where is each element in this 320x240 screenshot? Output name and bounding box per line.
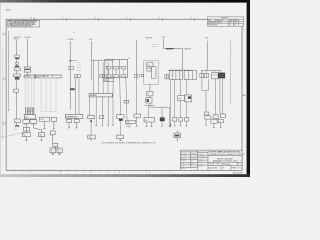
bus join [144,104,154,106]
notes box top-left [8,20,40,27]
contact set 1 [106,75,111,78]
wire stub [127,127,129,128]
junction box JB602 [51,117,56,121]
svg-text:DESIGN: DESIGN [181,158,186,160]
wire [119,121,121,135]
wire [169,80,171,127]
wire W607 [90,41,92,60]
wire [186,80,188,95]
wire [126,77,127,120]
wire [53,121,55,129]
wire W609 [163,39,165,49]
node label EMER 28V BUS [14,37,21,41]
wire split [53,147,59,148]
wire stub [205,119,207,125]
connector splice dark [70,88,75,90]
svg-text:4: 4 [159,17,160,19]
terminal E604 [204,112,209,115]
wire W602 [27,39,29,67]
relay box K612 [50,131,55,135]
svg-text:P606: P606 [205,37,208,39]
svg-text:D.FOX: D.FOX [191,163,195,165]
scan crease squiggle bottom-left [0,133,24,137]
zone tick left border [3,34,7,124]
wire [136,77,138,114]
wire [16,71,18,74]
terminal E601 [15,63,18,64]
wire [25,123,27,132]
splice pair center [134,75,136,78]
wire W610 [206,41,208,71]
wire stub [76,122,78,128]
diode CR601 [134,114,141,117]
svg-text:CHECKED: CHECKED [181,155,187,157]
relay K604 [114,66,119,69]
wire stubs [146,121,164,126]
relay K603 [106,66,111,69]
feed wire [52,135,54,143]
connector P602 [24,115,35,119]
wire [180,101,182,118]
armature bar [151,67,156,78]
solenoid L601 [173,118,177,122]
wire stub [176,130,178,133]
wire stubs [213,123,222,128]
terminal block TB603 [88,135,95,139]
wire [149,96,151,98]
actuator A604 [211,119,217,123]
contactor K611 [146,98,152,103]
svg-text:7R: 7R [148,94,150,96]
wire stub [136,117,138,126]
solenoid L602 [178,118,182,122]
svg-text:P2: P2 [128,58,130,60]
svg-text:J603: J603 [40,119,43,121]
svg-text:TB3: TB3 [89,137,92,139]
splice blob [170,124,171,125]
cable run [164,48,183,50]
size / dwg no row [209,163,241,165]
switch actuator dark [119,119,123,121]
wire [186,102,188,118]
cable shield group W603 [25,78,34,112]
scan dark band right [247,0,250,177]
wire [16,80,18,89]
wire [76,118,78,119]
column labels [106,61,123,64]
svg-text:ISSUED: ISSUED [181,168,186,170]
fuse F601 [67,119,72,122]
cell text marks [107,67,124,77]
svg-text:DESCRIPTION: DESCRIPTION [215,20,224,22]
barrier strip [24,127,30,131]
filter FL602 [57,148,62,153]
filter FL601 [50,148,56,153]
scale / sheet row [209,166,241,169]
switch S602 [116,115,124,119]
svg-text:P602: P602 [25,117,28,119]
svg-text:6: 6 [95,17,96,19]
wire stub [119,139,121,141]
connector end bar [15,125,19,126]
svg-text:C: C [177,75,178,77]
svg-text:GUN HT: GUN HT [77,62,82,64]
svg-text:4-12: 4-12 [229,22,232,24]
wire [16,123,18,126]
zone numerals bottom border [30,171,150,174]
zone letters left border [3,32,5,124]
svg-text:P603 REF: P603 REF [68,39,74,41]
svg-text:K607: K607 [145,120,148,122]
revision block top-right [207,17,243,26]
contact set 2 [114,75,119,78]
svg-text:4: 4 [119,172,120,174]
svg-text:SYM: SYM [208,20,211,22]
wire [181,49,183,71]
svg-text:5: 5 [127,17,128,19]
wire [149,103,151,105]
svg-text:K609: K609 [179,98,182,100]
svg-text:B: B [208,25,209,27]
zone ticks top border [35,18,195,21]
wire [16,59,18,62]
svg-text:7: 7 [30,171,31,173]
connector plug dark [15,77,20,80]
control box A603 [125,120,135,123]
svg-text:SHEET 1 OF 3: SHEET 1 OF 3 [232,167,241,169]
solenoid L603 [185,118,189,122]
zone letters right border [243,30,245,156]
wire stub [68,122,70,128]
wire [43,121,45,129]
wire W601 [16,40,18,55]
connector pins hatch [26,107,34,114]
harness wires lower [90,97,109,115]
relay K602 [14,119,20,123]
scan crease line left [2,48,4,140]
bus HB3 [201,69,221,71]
svg-text:5: 5 [90,172,91,174]
relay K605 [121,66,126,69]
svg-text:J.COLE: J.COLE [191,158,196,160]
svg-text:W605: W605 [89,39,93,41]
scan dark band top [0,0,250,3]
ground module A606 [53,143,58,146]
bus wire along left margin [8,31,10,110]
cable designation dark [166,48,174,49]
svg-text:REVISED PER EO: REVISED PER EO [211,22,222,24]
svg-text:7: 7 [63,17,64,19]
splice pair B [205,73,209,78]
switch S604 [205,116,211,119]
wire [112,77,114,78]
switch S601 [14,68,20,71]
wire destination labels [77,62,82,72]
wire stub [41,137,43,141]
terminal E602 [69,67,74,70]
connector P605 [88,115,94,119]
terminal block TB604 [117,135,124,139]
wire W606 long [69,41,71,110]
svg-text:W.EBERT: W.EBERT [191,152,197,154]
wire label cluster [152,43,160,48]
wire [149,84,151,91]
wire [16,92,18,119]
svg-text:REV: REV [238,163,241,165]
wire stubs [169,121,187,126]
svg-text:R.C: R.C [234,25,236,27]
svg-text:K60: K60 [147,65,150,67]
svg-text:J.M: J.M [234,22,236,24]
svg-text:K601 REF: K601 REF [25,37,31,39]
connector bar J604 [89,94,112,97]
scan dark band bottom [0,174,250,177]
relay panel table A602 [105,59,128,77]
switch S602A [14,89,19,92]
terminal block half TB601B [30,120,37,124]
svg-text:DESIGN: DESIGN [198,166,203,168]
wire [75,78,77,115]
svg-text:8: 8 [31,17,32,19]
gun control K610 [185,95,192,102]
cable shield group W604 [41,78,56,112]
svg-text:6-12-57: 6-12-57 [198,161,203,163]
power relay K608 dark [160,117,165,121]
wire [215,78,217,115]
drops [202,70,221,73]
wire [68,118,70,119]
TITLE BLOCK [180,150,242,170]
wire stub [90,139,92,141]
zone ticks bottom border [14,169,170,172]
svg-text:GROUP: GROUP [198,164,203,166]
svg-text:223-54011: 223-54011 [222,164,230,166]
svg-text:GD 12: GD 12 [13,128,17,130]
terminal block TB605 [174,133,181,138]
wire [221,78,223,114]
wire [108,69,110,75]
svg-text:6-3: 6-3 [229,25,231,27]
zone tick right border [242,95,246,97]
svg-text:G: G [193,75,194,77]
fuse holder dark [15,58,19,59]
connector J607 [211,73,218,79]
wire [27,72,29,77]
terminal block half TB601A [23,120,29,124]
label box A607 [104,78,114,81]
bus HB2 [168,69,192,71]
splice pair A [200,73,204,78]
gun control K609 [178,96,185,101]
wire [205,90,207,112]
svg-text:GD2: GD2 [58,150,61,152]
scan light edge left [0,3,1,175]
inverter assembly A601 [66,114,83,118]
resistor R602 [147,92,153,96]
svg-text:INVERTER MG601: INVERTER MG601 [66,117,78,119]
wire [180,80,182,96]
svg-text:D: D [180,75,181,77]
valve V601 [213,115,218,119]
connector cells J605 [169,71,182,80]
terminal block TB601 [22,133,30,137]
spare cell [100,115,104,118]
svg-text:SIGHT: SIGHT [77,67,81,69]
harness wires [91,60,108,93]
wire W608 [136,40,138,75]
svg-text:GD1: GD1 [51,150,54,152]
ground [58,153,61,155]
relay K607 [144,117,154,122]
valve V602 [220,114,225,118]
actuator A605 [218,119,223,122]
splice dark tick [90,120,92,122]
pin ticks [25,123,36,125]
wire [119,77,122,114]
wire [16,64,18,65]
svg-text:NORTH AMERICAN AVIATION, INC.: NORTH AMERICAN AVIATION, INC. [209,151,241,154]
svg-text:TB2: TB2 [39,135,42,137]
junction box JB601 [40,117,50,121]
power connector dark [218,73,225,79]
splice pair [74,75,77,78]
notes text [8,21,37,28]
connector header J601 [24,75,35,78]
connector P601 dark bar [15,66,19,68]
fuse F602 [74,119,79,122]
svg-text:6: 6 [60,172,61,174]
svg-text:STRESS: STRESS [181,160,186,162]
zone numerals top border [31,17,192,19]
svg-text:28V DC: 28V DC [14,38,19,40]
wire W611 [229,41,231,104]
svg-text:TB1: TB1 [23,135,26,137]
ground [52,153,55,155]
pin marks [127,124,131,126]
wire [174,80,176,118]
splice cells left of table [100,74,102,77]
svg-text:SW S603: SW S603 [152,46,158,48]
wire [112,82,114,126]
circuit breaker CB601 [15,55,20,58]
svg-text:REVISIONS: REVISIONS [221,18,228,20]
coil K606 [147,63,153,67]
splice pair left [165,75,167,79]
svg-text:CODE: CODE [214,163,218,165]
wire [34,123,42,132]
wire end stubs [95,115,109,125]
tap junction [70,60,72,61]
receptacle shell [14,74,21,77]
wire [90,119,92,135]
bus feeder [91,59,113,61]
sheet border frame [6,19,242,170]
connector cells J606 [184,71,197,80]
splice box SP602 [124,100,129,103]
contact set 3 [121,75,126,78]
svg-text:ARMAMENT SYSTEM F-100D: ARMAMENT SYSTEM F-100D [213,160,238,163]
wire [78,78,80,115]
paper background [0,0,250,177]
aux contact [141,74,144,77]
relay K601 [24,67,30,72]
svg-text:WT: WT [222,167,224,169]
relay assembly K606 [144,61,159,85]
wire [219,78,221,114]
distribution line [150,106,170,108]
svg-text:CONT: CONT [126,122,130,124]
terminal block TB602 [38,133,44,137]
L wire [202,78,209,91]
connector header J602 [35,75,61,78]
svg-text:3: 3 [191,17,192,19]
svg-text:3: 3 [149,172,150,174]
contact K606 [147,68,151,71]
wire stub [25,137,27,141]
